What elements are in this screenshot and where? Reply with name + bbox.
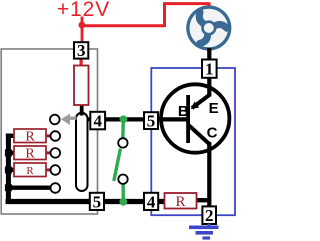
pin box 5 bottom bbox=[90, 193, 104, 210]
svg-text:+12V: +12V bbox=[57, 0, 110, 21]
svg-text:R: R bbox=[175, 194, 185, 210]
junction dot green bottom bbox=[119, 198, 127, 206]
terminal circle c4 bbox=[51, 183, 61, 193]
junction dot red bbox=[79, 22, 86, 29]
green wire switch bottom terminal to dot2 bbox=[121, 184, 125, 202]
emitter diagonal wire bbox=[192, 95, 209, 108]
wire red vertical step up bbox=[163, 4, 166, 27]
wiper arrow gray bbox=[61, 114, 70, 125]
svg-text:5: 5 bbox=[93, 192, 102, 211]
junction dot green top bbox=[120, 115, 128, 123]
svg-text:2: 2 bbox=[205, 206, 214, 225]
wire black resistor R4 to collector bbox=[196, 198, 209, 202]
fan M1 bbox=[186, 5, 231, 50]
gray enclosure box (potentiometer component) bbox=[1, 49, 97, 214]
green wire dot1 to switch top terminal bbox=[121, 119, 125, 138]
switch terminal top circle bbox=[118, 138, 127, 147]
ground bar 1 bbox=[189, 226, 219, 230]
bus wire left vertical bbox=[6, 134, 11, 204]
svg-text:R: R bbox=[25, 130, 35, 145]
wire red horizontal upper run to fan bbox=[163, 2, 209, 5]
wire black stub resistor into track bbox=[80, 104, 84, 116]
svg-text:E: E bbox=[209, 100, 219, 117]
resistor R3 bbox=[14, 163, 46, 177]
ground bar 3 bbox=[203, 236, 211, 239]
junction square node 2 bbox=[5, 149, 12, 156]
blue enclosure box (transistor component) bbox=[151, 68, 235, 215]
svg-text:4: 4 bbox=[93, 111, 102, 130]
svg-text:R: R bbox=[26, 165, 34, 177]
stub bus to R3 bbox=[6, 168, 15, 172]
resistor R2 bbox=[14, 146, 46, 160]
junction square node 4 bbox=[5, 184, 12, 191]
pin box 3 bbox=[74, 42, 88, 58]
wire base row 1 bbox=[86, 117, 188, 121]
pin box 1 bbox=[202, 60, 217, 78]
wire black bus to terminal c4 bbox=[8, 185, 51, 189]
junction square node 3 bbox=[5, 167, 12, 174]
wire black pin 1 to emitter bbox=[207, 76, 211, 97]
wire red vertical from +12V to pin 3 bbox=[81, 17, 84, 44]
transistor Q1 body circle bbox=[161, 84, 229, 152]
collector diagonal wire bbox=[189, 125, 210, 144]
resistor R4 horizontal bbox=[165, 193, 197, 209]
resistor R1 bbox=[14, 129, 46, 143]
terminal circle c1 bbox=[51, 131, 61, 141]
svg-text:3: 3 bbox=[77, 41, 86, 60]
svg-text:5: 5 bbox=[147, 111, 156, 130]
pin stub R2 bbox=[46, 151, 51, 154]
wire red stub into fan top bbox=[208, 3, 211, 9]
svg-text:1: 1 bbox=[205, 60, 214, 79]
switch terminal bottom circle bbox=[118, 175, 127, 184]
stub bus to R1 bbox=[6, 134, 15, 138]
svg-text:R: R bbox=[25, 147, 35, 162]
wire black collector down to pin 2 bbox=[207, 142, 211, 208]
terminal circle wiper bbox=[50, 115, 60, 125]
wire black fan to pin 1 bbox=[207, 48, 211, 62]
svg-text:B: B bbox=[178, 103, 189, 120]
base bar bbox=[186, 95, 190, 143]
svg-text:4: 4 bbox=[147, 192, 156, 211]
ground stub blue bbox=[207, 224, 210, 227]
svg-text:C: C bbox=[207, 125, 218, 142]
potentiometer track (stadium) bbox=[76, 113, 88, 191]
pin stub R1 bbox=[46, 134, 51, 137]
wire red stub pin3 to resistor bbox=[79, 56, 82, 66]
wire red horizontal lower run bbox=[81, 24, 165, 27]
stub bus to R2 bbox=[6, 151, 15, 155]
ground bar 2 bbox=[196, 231, 214, 235]
wire black row 2 bottom bbox=[6, 199, 165, 204]
pin box 2 bbox=[202, 206, 216, 224]
switch blade green (open) bbox=[114, 149, 121, 181]
resistor vertical (pot body) bbox=[74, 66, 89, 106]
pin box 4 top bbox=[90, 112, 105, 130]
pin stub R3 bbox=[46, 168, 51, 171]
pin box 4 bottom bbox=[144, 193, 158, 210]
pin box 5 top bbox=[144, 112, 158, 129]
terminal circle c3 bbox=[51, 165, 61, 175]
emitter arrowhead (PNP) bbox=[191, 102, 199, 110]
wiper arrow tail bbox=[70, 117, 77, 120]
terminal circle c2 bbox=[51, 148, 61, 158]
